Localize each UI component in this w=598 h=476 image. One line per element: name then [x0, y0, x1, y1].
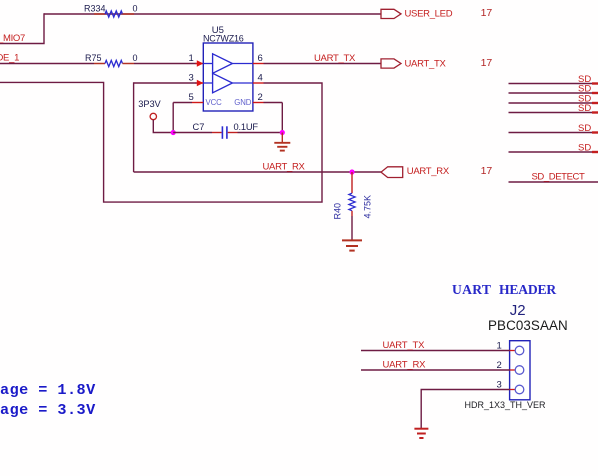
svg-text:0.1UF: 0.1UF	[234, 122, 259, 132]
svg-text:PBC03SAAN: PBC03SAAN	[488, 318, 568, 333]
svg-text:2: 2	[258, 92, 263, 103]
note voltage 3.3V	[0, 401, 96, 419]
wire SD stub 2	[509, 83, 598, 94]
wire UART_RX to J2 pin 2	[361, 359, 510, 370]
svg-text:17: 17	[481, 7, 493, 19]
wire UART_TX output	[264, 53, 382, 64]
svg-text:UART_TX: UART_TX	[405, 58, 447, 69]
resistor R75	[85, 53, 138, 67]
wire DE_1 input row	[0, 63, 197, 65]
wire SD stub 4	[509, 103, 598, 114]
svg-text:5: 5	[189, 92, 194, 103]
svg-text:SD_DETECT: SD_DETECT	[532, 171, 585, 182]
buffer gate 2 of U5	[203, 73, 253, 93]
pin number 1 of J2	[497, 341, 502, 352]
svg-text:17: 17	[481, 165, 493, 177]
label page number 17 (USER_LED)	[481, 7, 493, 19]
wire ground to J2 pin 3	[421, 390, 509, 429]
svg-text:UART_RX: UART_RX	[263, 162, 306, 173]
svg-text:NC7WZ16: NC7WZ16	[203, 34, 244, 44]
svg-text:0: 0	[133, 53, 138, 63]
pin number 3	[189, 72, 194, 83]
svg-text:R40: R40	[332, 203, 342, 220]
svg-text:6: 6	[258, 53, 263, 64]
pin number 3 of J2	[497, 380, 502, 391]
svg-text:DE_1: DE_1	[0, 53, 19, 64]
buffer gate 1 of U5	[203, 54, 253, 74]
svg-text:UART_TX: UART_TX	[383, 340, 426, 351]
svg-text:UART_TX: UART_TX	[314, 53, 356, 64]
svg-text:HEADER: HEADER	[499, 282, 556, 297]
connector J2 pin circle 1	[510, 346, 524, 355]
wire UART_TX to J2 pin 1	[361, 340, 510, 351]
label UART HEADER title	[452, 282, 556, 297]
connector J2 pin circle 2	[510, 366, 524, 375]
svg-text:age = 1.8V: age = 1.8V	[0, 381, 96, 399]
connector J2 body	[510, 341, 530, 400]
svg-text:R75: R75	[85, 53, 102, 63]
pin 5 lead and VCC riser	[173, 103, 203, 133]
svg-text:3: 3	[497, 380, 502, 391]
off-page connector UART_RX	[381, 166, 450, 177]
svg-text:C7: C7	[193, 122, 205, 132]
wire SD stub 1	[509, 74, 598, 85]
svg-text:4: 4	[258, 72, 263, 83]
connector J2 reference	[488, 302, 568, 333]
svg-text:2: 2	[497, 360, 502, 371]
pin 6 lead	[253, 63, 264, 65]
wire pin4 loop around chip to left edge	[0, 82, 322, 202]
node junction 3P3V / C7	[171, 130, 176, 135]
svg-text:SD: SD	[578, 103, 591, 114]
pin number 2 of J2	[497, 360, 502, 371]
connector J2 pin circle 3	[510, 385, 524, 394]
svg-text:SD: SD	[578, 123, 591, 134]
capacitor C7 0.1UF	[173, 122, 282, 139]
note voltage 1.8V	[0, 381, 96, 399]
pin 2 lead and GND drop	[253, 103, 282, 133]
svg-text:UART_RX: UART_RX	[383, 359, 427, 370]
pin 3 input arrow of U5	[196, 80, 204, 86]
wire SD stub 6	[509, 142, 598, 153]
node junction C7 / GND	[280, 130, 285, 135]
svg-text:3: 3	[189, 72, 194, 83]
svg-text:17: 17	[481, 57, 493, 69]
resistor R334	[84, 4, 138, 18]
svg-text:HDR_1X3_TH_VER: HDR_1X3_TH_VER	[465, 400, 547, 410]
svg-text:_MIO7: _MIO7	[0, 33, 25, 44]
op-amp U5 body NC7WZ16	[203, 25, 253, 111]
wire SD_DETECT stub	[509, 171, 598, 182]
pin 1 input arrow of U5	[196, 60, 204, 66]
svg-text:1: 1	[497, 341, 502, 352]
wire SD stub 3	[509, 93, 598, 104]
svg-text:R334: R334	[84, 4, 106, 14]
svg-text:4.75K: 4.75K	[363, 195, 373, 219]
pin number 2	[258, 92, 263, 103]
resistor R40 pulldown	[332, 172, 372, 240]
wire USER_LED top horizontal	[44, 13, 381, 15]
svg-text:3P3V: 3P3V	[138, 99, 161, 109]
svg-text:UART_RX: UART_RX	[407, 166, 450, 177]
svg-text:GND: GND	[234, 98, 251, 107]
svg-text:UART: UART	[452, 282, 491, 297]
pin number 6	[258, 53, 263, 64]
wire MIO7 vertical drop	[0, 13, 44, 43]
pin labels VCC GND of U5	[206, 98, 252, 107]
svg-text:VCC: VCC	[206, 98, 223, 107]
wire SD stub 5	[509, 123, 598, 134]
node junction UART_RX / R40	[349, 169, 354, 174]
label page number 17 (UART_TX)	[481, 57, 493, 69]
node DE_1 net label	[0, 53, 19, 64]
ground below C7	[274, 133, 290, 151]
svg-text:USER_LED: USER_LED	[405, 8, 453, 19]
pin number 1	[189, 53, 194, 64]
svg-text:age = 3.3V: age = 3.3V	[0, 401, 96, 419]
off-page connector USER_LED	[381, 8, 453, 19]
pin number 4	[258, 72, 263, 83]
svg-text:J2: J2	[510, 302, 526, 319]
svg-text:1: 1	[189, 53, 194, 64]
pin 4 lead	[253, 82, 264, 84]
ground below J2	[414, 429, 428, 438]
power symbol 3P3V	[138, 99, 173, 133]
wire UART_RX to pin 3	[134, 82, 381, 172]
label page number 17 (UART_RX)	[481, 165, 493, 177]
off-page connector UART_TX	[381, 58, 446, 69]
svg-text:0: 0	[133, 4, 138, 14]
label HDR_1X3_TH_VER	[465, 400, 547, 410]
svg-text:SD: SD	[578, 142, 591, 153]
node _MIO7 net label	[0, 33, 25, 44]
ground below R40	[342, 240, 362, 250]
pin number 5	[189, 92, 194, 103]
